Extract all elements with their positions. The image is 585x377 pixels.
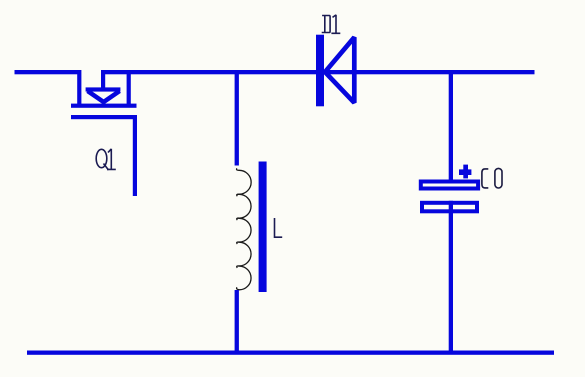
wire inductor bottom stub	[235, 290, 239, 354]
wire capacitor top stub	[449, 70, 453, 180]
inductor L coil	[237, 168, 252, 289]
transistor Q1 drain lead	[77, 70, 81, 105]
wire top rail main segment	[101, 70, 535, 74]
inductor L core bar	[259, 162, 267, 293]
transistor Q1 source lead	[127, 70, 131, 105]
wire capacitor bottom stub	[449, 201, 453, 354]
wire gate lead	[133, 115, 137, 196]
transistor Q1 body lead	[101, 70, 105, 89]
capacitor C0 bottom plate	[422, 203, 477, 212]
capacitor C0 top plate	[421, 182, 478, 189]
diode D1 cathode bar	[316, 35, 324, 107]
diode D1 triangle	[325, 37, 354, 103]
transistor Q1 body arrow	[86, 87, 121, 91]
wire inductor top stub	[235, 70, 239, 166]
label L	[275, 218, 283, 237]
label Q1	[96, 149, 116, 170]
wire top rail left segment	[15, 70, 82, 74]
transistor Q1 channel bar	[71, 104, 137, 108]
capacitor C0 plus sign	[459, 169, 471, 175]
label C0	[482, 168, 502, 188]
transistor Q1 gate bar	[71, 115, 136, 119]
wire bottom rail	[27, 351, 554, 355]
label D1	[322, 15, 341, 34]
